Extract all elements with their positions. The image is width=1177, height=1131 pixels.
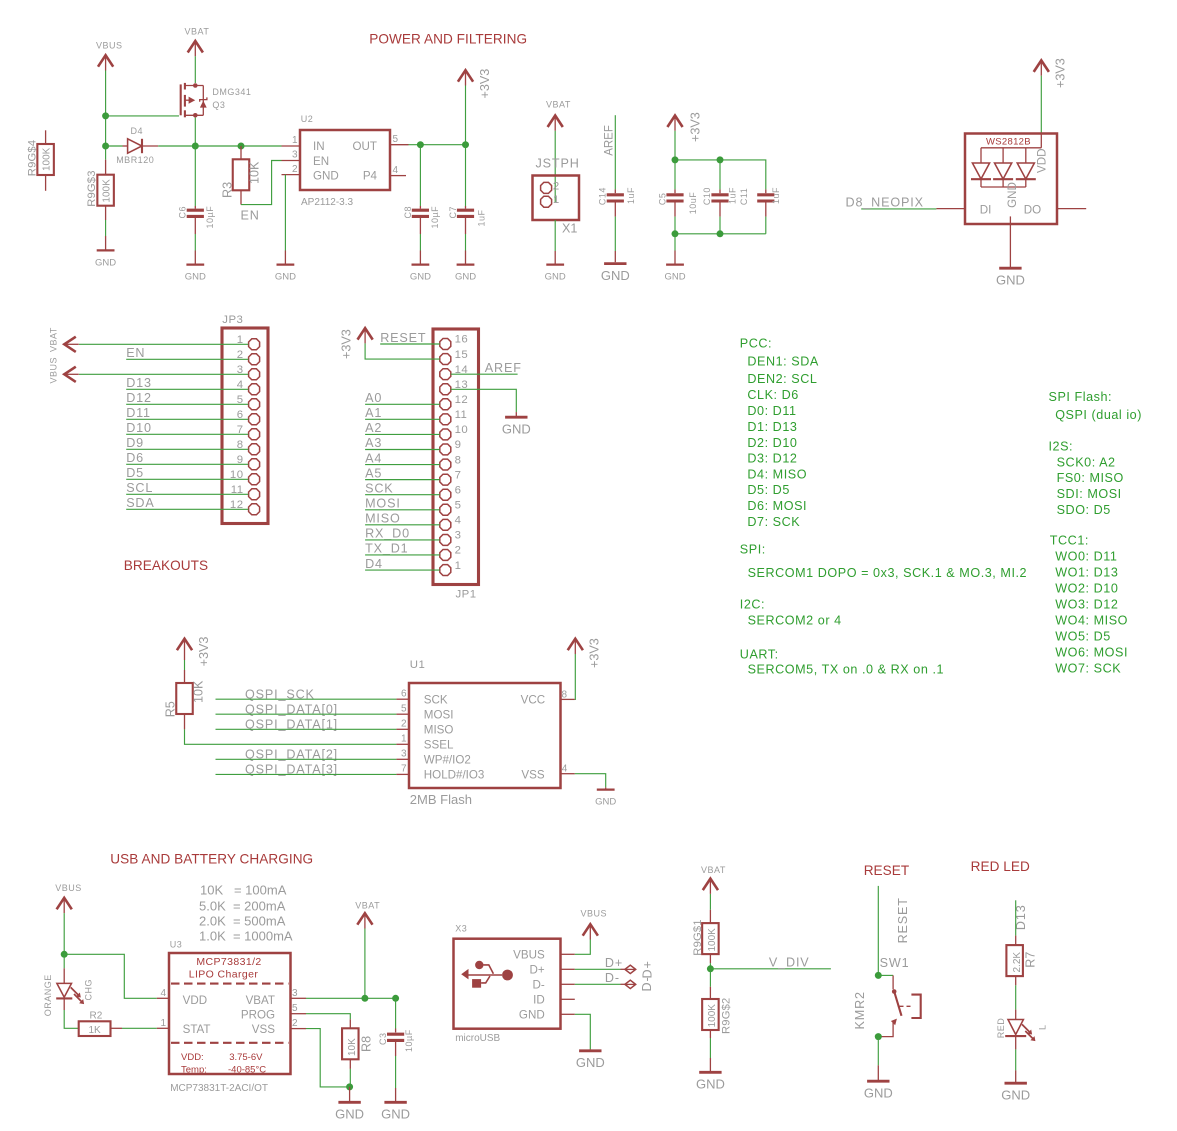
capacitor C5 10uF [666, 160, 683, 234]
ground below U2 pin2 [277, 263, 295, 265]
node C10 top junction [717, 156, 724, 163]
svg-text:+3V3: +3V3 [197, 637, 211, 667]
svg-text:RED LED: RED LED [971, 859, 1030, 874]
pin DI stub [936, 208, 965, 210]
note block TCC1 [1050, 534, 1128, 676]
svg-text:2.2K: 2.2K [1012, 952, 1023, 973]
svg-text:C8: C8 [403, 206, 413, 219]
svg-text:D+: D+ [641, 960, 655, 978]
svg-text:I2S:: I2S: [1049, 440, 1074, 454]
svg-text:U1: U1 [410, 659, 425, 671]
svg-text:microUSB: microUSB [455, 1033, 500, 1044]
pin U3.2 VSS [291, 1028, 307, 1030]
svg-text:11: 11 [455, 409, 468, 421]
supply +3V3 at bypass caps [667, 116, 682, 128]
ground below C6 [186, 263, 204, 265]
pin X3 ID [561, 998, 575, 1000]
svg-text:VBUS: VBUS [55, 883, 82, 893]
wire VBUS to JP3.3 [79, 373, 248, 375]
wire A0 to JP1.12 [365, 403, 440, 405]
supply +3V3 at U1 VCC [568, 639, 583, 651]
wire V_DIV net [710, 968, 831, 970]
svg-text:WO3: D12: WO3: D12 [1055, 598, 1118, 612]
svg-text:X3: X3 [455, 924, 467, 934]
svg-text:3: 3 [292, 150, 298, 161]
pin U1.3 WP#/IO2 [396, 758, 409, 760]
ground at JP1.13 (large) [505, 416, 527, 419]
wire node to R3/U2 [195, 145, 281, 147]
svg-text:1K: 1K [88, 1025, 101, 1036]
ground below X3 (large) [579, 1049, 601, 1052]
svg-text:L: L [1037, 1024, 1047, 1030]
svg-text:2: 2 [292, 1018, 298, 1029]
svg-text:D9: D9 [126, 436, 144, 450]
capacitor C14 1uF [607, 189, 624, 262]
xref diamond D- [625, 980, 636, 988]
svg-text:+3V3: +3V3 [478, 69, 492, 99]
svg-text:PROG: PROG [241, 1009, 275, 1022]
wire U3 VBAT net to arrow and C3 [306, 997, 396, 999]
svg-text:RESET: RESET [896, 897, 910, 943]
svg-text:JP1: JP1 [456, 588, 477, 600]
pad JP1.16 [440, 339, 451, 350]
svg-text:D+: D+ [605, 956, 623, 970]
svg-text:MISO: MISO [424, 724, 454, 737]
svg-text:AREF: AREF [604, 125, 616, 156]
wire LED to ground [1015, 1036, 1017, 1049]
svg-text:D13: D13 [126, 376, 152, 390]
svg-text:C5: C5 [657, 193, 667, 206]
connector JP3 12-pin header [222, 328, 268, 524]
svg-text:GND: GND [502, 422, 531, 437]
svg-text:15: 15 [455, 349, 469, 361]
svg-text:GND: GND [275, 272, 296, 283]
svg-text:4: 4 [393, 165, 399, 176]
svg-text:6: 6 [401, 688, 407, 699]
pad JP1.4 [440, 519, 451, 530]
svg-text:Temp:: Temp: [181, 1065, 207, 1076]
capacitor C6 10uF [187, 146, 204, 264]
svg-text:DMG341: DMG341 [212, 87, 251, 97]
note block UART [740, 648, 944, 677]
svg-text:UART:: UART: [740, 648, 779, 662]
svg-text:D6: MOSI: D6: MOSI [747, 499, 807, 513]
svg-text:VDD:: VDD: [181, 1052, 204, 1063]
ground below C5 [666, 263, 684, 265]
pad JP1.6 [440, 489, 451, 500]
resistor R2 1K [79, 1021, 122, 1036]
node SW1 top junction [875, 972, 882, 979]
svg-text:U2: U2 [301, 114, 314, 124]
svg-text:ID: ID [533, 993, 545, 1006]
svg-text:1: 1 [553, 194, 560, 206]
wire +3V3 to JP1.15 [365, 343, 440, 359]
supply +3V3 at JP1 [358, 328, 373, 340]
svg-text:6: 6 [455, 484, 462, 496]
wire +3V3 to U1 VCC [574, 654, 577, 699]
svg-text:R3: R3 [221, 182, 235, 198]
svg-text:GND: GND [595, 797, 616, 808]
wire U2 OUT to +3V3 [409, 144, 466, 146]
svg-text:2.0K = 500mA: 2.0K = 500mA [199, 914, 286, 929]
note block PCC pin mapping [740, 337, 819, 530]
wire A1 to JP1.11 [365, 418, 440, 420]
svg-text:1: 1 [292, 135, 298, 146]
pad JP3.8 [249, 444, 260, 455]
svg-text:8: 8 [562, 690, 568, 701]
svg-text:A5: A5 [365, 466, 382, 480]
pad JP1.7 [440, 474, 451, 485]
svg-text:D12: D12 [126, 391, 152, 405]
resistor R3 10K enable pullup [233, 146, 250, 205]
capacitor C8 10uF [412, 145, 429, 264]
svg-text:CLK: D6: CLK: D6 [747, 388, 798, 402]
U3 dashed separators [171, 983, 289, 985]
svg-text:10K: 10K [347, 1038, 358, 1056]
pin X3 D- [561, 983, 575, 985]
pin U1.6 SCK [396, 698, 409, 700]
svg-text:4: 4 [562, 764, 568, 775]
supply +3V3 at NeoPixel [1034, 60, 1049, 72]
wire D- net [575, 983, 621, 985]
pin DO stub [1057, 208, 1086, 210]
svg-text:VBUS: VBUS [96, 41, 123, 51]
svg-text:100K: 100K [707, 1004, 718, 1028]
svg-text:VBAT: VBAT [246, 994, 275, 1007]
connector X1 JSTPH [533, 176, 580, 221]
svg-text:DI: DI [980, 203, 992, 216]
svg-text:A0: A0 [365, 391, 382, 405]
wire D4 to JP1.1 [365, 569, 440, 571]
wire D5 to JP3.10 [126, 478, 248, 480]
svg-text:MCP73831/2: MCP73831/2 [196, 956, 261, 968]
wire VBAT to Q3 drain [194, 56, 196, 83]
svg-text:2: 2 [292, 164, 298, 175]
svg-text:MCP73831T-2ACI/OT: MCP73831T-2ACI/OT [170, 1083, 268, 1094]
wire R7 to LED [1015, 985, 1017, 1009]
pad JP3.1 [249, 339, 260, 350]
svg-text:WO0: D11: WO0: D11 [1055, 550, 1117, 564]
capacitor C7 1uF [457, 145, 474, 264]
pad JP3.10 [249, 474, 260, 485]
xref diamond D+ [625, 965, 636, 973]
svg-text:CHG: CHG [84, 979, 94, 1001]
wire +3V3 down to bus [674, 131, 676, 160]
wire RX_D0 to JP1.3 [365, 539, 440, 541]
wire AREF net [614, 115, 616, 189]
svg-text:SDA: SDA [126, 496, 154, 510]
svg-text:D4: MISO: D4: MISO [747, 468, 807, 482]
svg-text:VBUS: VBUS [49, 357, 59, 384]
pin U3.5 PROG [291, 1013, 307, 1015]
wire D11 to JP3.6 [126, 418, 248, 420]
wire R2 to U3 STAT pin1 [122, 1027, 157, 1029]
svg-text:DO: DO [1024, 203, 1041, 216]
node Q3-C6 junction [192, 143, 199, 150]
note block SPI Flash [1049, 390, 1142, 422]
svg-text:ORANGE: ORANGE [43, 974, 53, 1016]
wire QSPI_DATA[1] [216, 728, 397, 730]
pin U1.2 MISO [396, 728, 409, 730]
resistor R9G$1 100K [702, 894, 719, 969]
svg-text:SCK0: A2: SCK0: A2 [1057, 455, 1116, 469]
svg-text:10K: 10K [192, 680, 206, 703]
wire SCL to JP3.11 [126, 493, 248, 495]
note block SPI [740, 543, 1027, 580]
pin U3.1 STAT [157, 1027, 169, 1029]
svg-text:SDI: MOSI: SDI: MOSI [1057, 487, 1122, 501]
svg-text:R7: R7 [1024, 952, 1038, 968]
svg-text:10K = 100mA: 10K = 100mA [200, 883, 287, 898]
svg-text:VBUS: VBUS [581, 908, 608, 918]
svg-text:VSS: VSS [521, 769, 544, 782]
svg-text:+3V3: +3V3 [689, 112, 703, 142]
node VBUS-LED junction [61, 951, 68, 958]
pin U2.5 OUT [390, 144, 409, 146]
svg-text:IN: IN [313, 140, 325, 153]
wire node to ground [349, 1087, 351, 1101]
svg-text:FS0: MISO: FS0: MISO [1057, 471, 1124, 485]
svg-text:HOLD#/IO3: HOLD#/IO3 [424, 769, 485, 782]
ground below C14 (large) [604, 262, 626, 265]
capacitor C11 1uF [757, 189, 774, 233]
svg-text:D7: SCK: D7: SCK [747, 515, 800, 529]
pad JP3.7 [249, 429, 260, 440]
svg-text:Q3: Q3 [212, 100, 225, 110]
svg-text:D5: D5: D5: D5 [747, 483, 790, 497]
ground below C8 [412, 263, 430, 265]
ground below NeoPixel (large) [999, 267, 1021, 270]
resistor R8 10K [342, 1019, 359, 1069]
svg-text:SPI:: SPI: [740, 543, 766, 557]
wire bottom bus of bypass caps [675, 233, 766, 235]
svg-text:1uF: 1uF [477, 209, 487, 226]
svg-text:A3: A3 [365, 436, 382, 450]
svg-text:4: 4 [160, 988, 166, 999]
svg-text:OUT: OUT [353, 140, 377, 153]
svg-text:10µF: 10µF [205, 206, 215, 229]
svg-text:SCL: SCL [126, 481, 153, 495]
svg-text:4: 4 [455, 515, 462, 527]
node VBUS-gate junction [102, 112, 109, 119]
wire VBAT arrow down [364, 929, 366, 999]
svg-text:5: 5 [401, 703, 407, 714]
svg-text:C3: C3 [378, 1032, 388, 1045]
svg-text:GND: GND [545, 272, 566, 283]
wire SCK to JP1.6 [365, 494, 440, 496]
wire U3 PROG to R8 [306, 1014, 350, 1020]
svg-text:GND: GND [519, 1008, 545, 1021]
svg-text:MISO: MISO [365, 512, 401, 526]
wire A3 to JP1.9 [365, 448, 440, 450]
svg-text:8: 8 [455, 454, 462, 466]
pad JP1.9 [440, 444, 451, 455]
wire D12 to JP3.5 [126, 403, 248, 405]
pad JP3.4 [249, 384, 260, 395]
ground below C3 (large) [384, 1101, 406, 1104]
wire QSPI_DATA[0] [216, 713, 397, 715]
svg-text:GND: GND [696, 1077, 725, 1092]
wire QSPI_CS net from R5 to U1.SSEL [185, 729, 397, 744]
pin U1.8 VCC [561, 698, 575, 700]
svg-text:SW1: SW1 [880, 956, 910, 970]
svg-text:1uF: 1uF [626, 187, 636, 204]
pin U2.4 P4 [390, 175, 406, 177]
ground below LED (large) [1005, 1082, 1027, 1085]
wire top bus of bypass caps [675, 160, 766, 190]
pin U2.2 GND [282, 174, 301, 176]
svg-text:SDO: D5: SDO: D5 [1057, 503, 1111, 517]
switch SW1 KMR2 [878, 975, 920, 1036]
wire QSPI_DATA[3] [216, 773, 397, 775]
pad JP1.12 [440, 399, 451, 410]
resistor R9G$4 100K [37, 130, 54, 191]
wire D10 to JP3.7 [126, 433, 248, 435]
svg-text:I2C:: I2C: [740, 598, 765, 612]
svg-text:10µF: 10µF [404, 1029, 414, 1052]
svg-text:5: 5 [455, 499, 462, 511]
svg-text:VBAT: VBAT [355, 901, 380, 911]
LED red D13 [1005, 1020, 1035, 1042]
wire RESET to JP1.16 [380, 343, 440, 345]
svg-text:SCK: SCK [424, 694, 448, 707]
wire R8 to ground node [349, 1069, 351, 1087]
ground below X1 [546, 263, 564, 265]
svg-text:GND: GND [1001, 1088, 1030, 1103]
wire A4 to JP1.8 [365, 464, 440, 466]
svg-text:VCC: VCC [521, 694, 545, 707]
svg-text:2: 2 [553, 180, 560, 192]
svg-text:VBUS: VBUS [513, 948, 545, 961]
svg-text:WO5: D5: WO5: D5 [1055, 630, 1111, 644]
svg-text:2: 2 [401, 719, 407, 730]
svg-text:JP3: JP3 [222, 314, 243, 326]
svg-text:GND: GND [313, 169, 339, 182]
supply +3V3 at R5 [177, 639, 192, 651]
note block I2S [1049, 440, 1124, 518]
wire C5 to ground [674, 234, 676, 251]
pad JP1.14 [440, 369, 451, 380]
pin X3 D+ [561, 968, 575, 970]
svg-text:WO4: MISO: WO4: MISO [1055, 614, 1128, 628]
pin U1.7 HOLD#/IO3 [396, 773, 409, 775]
svg-text:EN: EN [126, 346, 145, 360]
wire D6 to JP3.9 [126, 463, 248, 465]
wire RESET net down to switch [877, 886, 879, 976]
svg-text:D10: D10 [126, 421, 152, 435]
resistor R5 10K CS pullup [176, 654, 193, 729]
svg-text:R9G$4: R9G$4 [26, 140, 38, 176]
svg-text:2: 2 [455, 545, 462, 557]
wire X3 GND to ground [575, 1014, 591, 1049]
node V_DIV junction [707, 965, 714, 972]
svg-text:10µF: 10µF [430, 206, 440, 229]
svg-text:DEN1: SDA: DEN1: SDA [747, 354, 818, 368]
wire SDA to JP3.12 [126, 508, 248, 510]
svg-text:C14: C14 [598, 187, 608, 205]
wire VBAT into X1 [554, 131, 556, 202]
wire EN to JP3.2 [126, 358, 248, 360]
svg-text:GND: GND [1006, 182, 1019, 208]
pin U3.3 VBAT [291, 997, 307, 999]
svg-text:GND: GND [576, 1055, 605, 1070]
svg-text:POWER AND FILTERING: POWER AND FILTERING [369, 31, 527, 46]
svg-text:SCK: SCK [365, 481, 393, 495]
wire A5 to JP1.7 [365, 479, 440, 481]
svg-text:EN: EN [241, 209, 260, 223]
svg-text:VDD: VDD [1036, 149, 1049, 173]
svg-text:WO2: D10: WO2: D10 [1055, 582, 1118, 596]
pad JP3.11 [249, 489, 260, 500]
svg-text:12: 12 [455, 394, 469, 406]
svg-text:+3V3: +3V3 [340, 329, 354, 359]
svg-text:D5: D5 [126, 466, 144, 480]
svg-text:AREF: AREF [485, 361, 522, 375]
pad JP3.6 [249, 414, 260, 425]
wire U3 VSS to ground node [306, 1029, 350, 1087]
wire QSPI_SCK [216, 698, 397, 700]
wire SW1 to ground [877, 1037, 879, 1066]
wire LED cathode to R2 [64, 1010, 79, 1028]
resistor R9G$2 100K [702, 969, 719, 1071]
svg-text:RESET: RESET [380, 331, 426, 345]
svg-text:GND: GND [410, 272, 431, 283]
wire VBUS down to LED/VDD node [63, 913, 65, 954]
svg-text:1.0K = 1000mA: 1.0K = 1000mA [199, 929, 293, 944]
wire VBUS to Q3 gate [106, 115, 179, 117]
svg-text:1uF: 1uF [727, 187, 737, 204]
pin U2.3 EN [282, 160, 301, 162]
resistor R9G$3 100K pulldown [97, 146, 114, 250]
svg-text:VBAT: VBAT [185, 27, 210, 37]
svg-text:2MB Flash: 2MB Flash [410, 792, 472, 807]
pad JP3.5 [249, 399, 260, 410]
svg-text:10K: 10K [248, 161, 262, 184]
svg-text:R2: R2 [90, 1011, 103, 1022]
svg-text:SPI Flash:: SPI Flash: [1049, 390, 1113, 404]
pad JP1.10 [440, 429, 451, 440]
svg-text:3: 3 [292, 988, 298, 999]
svg-text:PCC:: PCC: [740, 337, 772, 351]
svg-text:D6: D6 [126, 451, 144, 465]
svg-text:X1: X1 [562, 222, 577, 236]
pad JP1.8 [440, 459, 451, 470]
svg-text:USB AND BATTERY CHARGING: USB AND BATTERY CHARGING [110, 852, 313, 867]
capacitor C10 1uF [711, 160, 728, 234]
wire +3V3 to NeoPixel VDD [1040, 76, 1042, 134]
svg-text:D+: D+ [530, 963, 545, 976]
svg-text:7: 7 [401, 764, 407, 775]
wire TX_D1 to JP1.2 [365, 554, 440, 556]
svg-text:D4: D4 [131, 126, 144, 136]
svg-text:1: 1 [160, 1018, 166, 1029]
svg-text:WO1: D13: WO1: D13 [1055, 566, 1118, 580]
svg-text:1: 1 [455, 560, 462, 572]
svg-text:V_DIV: V_DIV [769, 956, 810, 970]
wire D4 cathode to node [158, 145, 195, 147]
connector X3 microUSB box [454, 939, 561, 1029]
icon USB trident [461, 961, 513, 988]
ground below divider (large) [699, 1071, 721, 1074]
svg-text:DEN2: SCL: DEN2: SCL [747, 372, 817, 386]
diode D4 MBR120 [106, 139, 159, 153]
svg-text:QSPI (dual io): QSPI (dual io) [1055, 408, 1142, 422]
svg-text:+3V3: +3V3 [588, 638, 602, 668]
capacitor C3 10uF [387, 998, 404, 1101]
node VSS-R8 junction [346, 1083, 353, 1090]
svg-text:-40-85°C: -40-85°C [228, 1065, 266, 1076]
svg-text:D1: D13: D1: D13 [747, 420, 797, 434]
